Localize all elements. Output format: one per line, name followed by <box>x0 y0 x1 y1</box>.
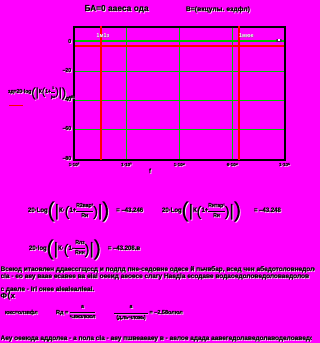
v gridline 1e4 <box>179 28 180 159</box>
bottom text line <box>1 335 312 342</box>
h gridline -60dB <box>75 129 284 130</box>
x axis title f <box>149 169 151 175</box>
title text <box>85 5 149 13</box>
paragraph line 2 <box>1 273 312 280</box>
trace end marker <box>276 39 282 42</box>
red marker vertical f2 <box>238 26 240 159</box>
red underline <box>9 105 23 107</box>
y axis label -60 <box>60 127 71 132</box>
y axis label -40 <box>60 98 71 103</box>
y axis label -80 <box>60 157 71 162</box>
x axis labels <box>64 162 84 167</box>
y axis formula <box>8 84 74 100</box>
top-right annotation <box>186 6 250 13</box>
h gridline -20dB <box>75 71 284 72</box>
formula 1 <box>28 202 143 221</box>
marker label f2 <box>239 33 254 39</box>
v gridline 1e5 <box>232 28 233 159</box>
h gridline -40dB <box>75 100 284 101</box>
h gridline 0dB <box>75 40 284 41</box>
y axis label 0 <box>60 40 71 45</box>
red trace horizontal <box>75 45 284 48</box>
paragraph line 4 <box>1 292 16 299</box>
R2 equation: R2 = fraction <box>56 304 95 322</box>
v gridline 1e3 <box>126 28 127 159</box>
R2 equation: second fraction and result <box>114 304 183 322</box>
marker label f1 <box>97 33 110 39</box>
plot frame <box>73 26 286 161</box>
paragraph line 1 <box>1 266 315 273</box>
formula 2 <box>162 202 281 221</box>
red marker vertical f1 <box>100 26 102 159</box>
y axis label -20 <box>60 69 71 74</box>
formula 3 <box>29 239 140 259</box>
R2 equation row: lhs text <box>5 311 38 316</box>
paragraph line 3 <box>1 286 96 293</box>
